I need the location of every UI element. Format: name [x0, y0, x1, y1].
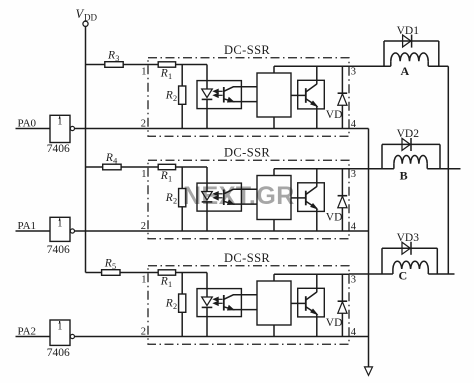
driver block (module 3)	[257, 281, 291, 325]
svg-text:R: R	[165, 192, 173, 204]
resistor R2 (module 3)	[179, 294, 186, 312]
phototransistor emitter to driver (module 1)	[224, 99, 257, 102]
wire internal top rail to pin 3 (module 1)	[274, 65, 349, 67]
inverter gate U-PA2 (7406)	[50, 320, 70, 345]
wire PA0 gate output to SSR pin 2	[75, 128, 149, 130]
wire emitter (module 2)	[316, 209, 318, 232]
svg-text:1: 1	[168, 72, 172, 81]
diode VD (module 1)	[341, 66, 343, 93]
driver block (module 1)	[257, 73, 291, 117]
resistor R3	[105, 62, 123, 68]
wire pin2 bottom rail to pin4 and ground rail (module 3)	[148, 336, 369, 338]
optocoupler box (module 1)	[197, 81, 241, 109]
wire ground return rail	[368, 129, 370, 368]
wire R2 to bottom (module 2)	[181, 207, 183, 231]
optocoupler LED (module 3)	[202, 297, 213, 306]
wire pin1 to R1 (module 1)	[148, 64, 158, 66]
wire R2 to bottom (module 1)	[181, 104, 183, 128]
DC-SSR module 2 dash-dot box	[148, 160, 349, 239]
resistor R2 (module 1)	[179, 86, 186, 104]
DC-SSR module 1 dash-dot box	[148, 58, 349, 137]
transistor Q2 (module 2)	[305, 191, 307, 206]
svg-text:VD2: VD2	[397, 128, 420, 140]
phototransistor collector to driver (module 3)	[224, 295, 257, 300]
wire PA1 gate output to SSR pin 2	[75, 230, 149, 232]
svg-text:R: R	[165, 298, 173, 310]
svg-text:R: R	[160, 68, 168, 80]
wire diode branch A	[384, 40, 439, 42]
wire LED cathode to pin2 line (module 2)	[206, 202, 208, 231]
wire LED cathode to pin2 line (module 1)	[206, 99, 208, 128]
svg-text:1: 1	[168, 280, 172, 289]
svg-text:DC-SSR: DC-SSR	[224, 146, 270, 160]
svg-text:3: 3	[351, 275, 356, 286]
wire phase C line from pin 3	[349, 273, 393, 275]
wire node to R2 (module 2)	[181, 167, 183, 189]
svg-text:VD3: VD3	[397, 232, 420, 244]
svg-text:R: R	[104, 257, 112, 269]
optocoupler LED (module 1)	[202, 89, 213, 98]
optocoupler LED (module 2)	[202, 192, 213, 201]
wire internal top rail to pin 3 (module 3)	[274, 273, 349, 275]
diode VD3	[402, 242, 410, 254]
wire B line right	[427, 168, 460, 170]
phototransistor bar (module 3)	[223, 295, 225, 311]
svg-text:DC-SSR: DC-SSR	[224, 43, 270, 57]
ground arrow	[365, 367, 373, 376]
inverter output bubble PA1	[70, 229, 74, 233]
DC-SSR module 3 dash-dot box	[148, 266, 349, 345]
wire collector (module 1)	[316, 66, 318, 84]
wire R4 to SSR pin 1	[121, 166, 148, 168]
wire PA2 input	[16, 336, 51, 338]
wire LED anode (module 1)	[206, 65, 208, 90]
svg-text:R: R	[160, 276, 168, 288]
inverter gate U-PA1 (7406)	[50, 217, 70, 241]
svg-text:1: 1	[141, 67, 146, 78]
svg-text:R: R	[107, 49, 115, 61]
diode VD1	[403, 35, 411, 47]
wire LED anode (module 3)	[206, 273, 208, 298]
svg-text:R: R	[165, 90, 173, 102]
svg-text:7406: 7406	[47, 347, 70, 359]
wire node to R2 (module 1)	[181, 65, 183, 87]
svg-text:R: R	[160, 170, 168, 182]
inductor B	[393, 164, 395, 169]
wire driver top (module 3)	[273, 274, 275, 281]
wire driver top (module 1)	[273, 66, 275, 73]
wire R2 to bottom (module 3)	[181, 312, 183, 336]
freewheel loop verticals B	[381, 144, 383, 168]
wire pin1 to R1 (module 3)	[148, 272, 158, 274]
svg-text:PA0: PA0	[18, 118, 37, 130]
svg-text:1: 1	[141, 275, 146, 286]
svg-text:1: 1	[141, 169, 146, 180]
inverter gate U-PA0 (7406)	[50, 115, 70, 142]
wire emitter (module 1)	[316, 106, 318, 129]
wire VDD rail	[85, 26, 87, 272]
svg-text:VD: VD	[326, 109, 343, 121]
svg-text:5: 5	[112, 262, 116, 271]
svg-text:PA1: PA1	[18, 220, 37, 232]
wire R1 to LED node (module 2)	[176, 166, 207, 168]
wire R1 to LED node (module 1)	[176, 64, 207, 66]
svg-text:PA2: PA2	[18, 326, 37, 338]
svg-text:7406: 7406	[47, 143, 70, 155]
wire driver bottom (module 3)	[273, 325, 275, 337]
svg-text:2: 2	[173, 94, 177, 103]
wire phase B line from pin 3	[349, 168, 394, 170]
driver block (module 2)	[257, 176, 291, 220]
phototransistor bar (module 1)	[223, 87, 225, 103]
resistor R1 (module 1)	[158, 62, 175, 67]
diode VD (module 3)	[341, 274, 343, 301]
light arrows (module 2)	[216, 193, 223, 195]
wire driver bottom (module 2)	[273, 220, 275, 232]
inverter output bubble PA0	[70, 126, 74, 130]
inductor C	[392, 269, 394, 274]
svg-text:1: 1	[168, 175, 172, 184]
wire R5 to SSR pin 1	[120, 272, 148, 274]
svg-text:VD: VD	[326, 212, 343, 224]
svg-text:3: 3	[115, 54, 119, 63]
wire pin2 bottom rail to pin4 and ground rail (module 2)	[148, 230, 369, 232]
wire R1 to LED node (module 3)	[176, 272, 207, 274]
wire VDD rail to R5	[86, 272, 102, 274]
diode VD2	[402, 138, 410, 150]
svg-text:2: 2	[141, 327, 146, 338]
svg-text:2: 2	[173, 197, 177, 206]
svg-text:R: R	[105, 152, 113, 164]
wire LED cathode to pin2 line (module 3)	[206, 307, 208, 336]
optocoupler box (module 2)	[197, 183, 241, 211]
transistor Q1 (module 1)	[305, 88, 307, 103]
wire driver to transistor base (module 1)	[291, 94, 306, 96]
svg-text:3: 3	[351, 169, 356, 180]
transistor box (module 3)	[298, 288, 325, 317]
resistor R5	[102, 270, 120, 276]
svg-text:VD: VD	[326, 317, 343, 329]
freewheel loop verticals A	[383, 41, 385, 66]
wire pin1 to R1 (module 2)	[148, 166, 158, 168]
svg-text:A: A	[401, 64, 410, 78]
transistor box (module 1)	[298, 80, 325, 109]
wire LED anode (module 2)	[206, 167, 208, 192]
svg-text:NEXT.GR: NEXT.GR	[183, 182, 295, 210]
svg-text:2: 2	[141, 119, 146, 130]
wire collector (module 2)	[316, 169, 318, 187]
phototransistor collector to driver (module 1)	[224, 87, 257, 92]
wire PA2 gate output to SSR pin 2	[75, 336, 149, 338]
wire VDD rail to R4	[86, 166, 103, 168]
svg-text:7406: 7406	[47, 244, 70, 256]
wire diode branch C	[382, 247, 437, 249]
svg-text:DC-SSR: DC-SSR	[224, 251, 270, 265]
optocoupler box (module 3)	[197, 289, 241, 317]
power VDD terminal	[83, 21, 88, 26]
inverter output bubble PA2	[70, 334, 74, 338]
diode VD (module 2)	[341, 169, 343, 196]
freewheel loop verticals C	[381, 248, 383, 274]
phototransistor bar (module 2)	[223, 190, 225, 206]
phototransistor emitter to driver (module 3)	[224, 307, 257, 310]
resistor R1 (module 2)	[158, 164, 175, 169]
svg-text:C: C	[399, 269, 408, 283]
wire emitter (module 3)	[316, 314, 318, 337]
inductor A	[390, 61, 392, 66]
phototransistor emitter to driver (module 2)	[224, 201, 257, 204]
transistor box (module 2)	[298, 183, 325, 212]
wire driver top (module 2)	[273, 169, 275, 176]
resistor R1 (module 3)	[158, 270, 175, 275]
wire pin2 bottom rail to pin4 and ground rail (module 1)	[148, 128, 369, 130]
wire driver to transistor base (module 3)	[291, 302, 306, 304]
wire A line right	[428, 65, 448, 67]
svg-text:VD1: VD1	[397, 25, 420, 37]
wire internal top rail to pin 3 (module 2)	[274, 168, 349, 170]
svg-text:2: 2	[173, 302, 177, 311]
wire collector (module 3)	[316, 274, 318, 292]
svg-text:B: B	[400, 169, 408, 183]
svg-text:4: 4	[113, 156, 117, 165]
svg-text:3: 3	[351, 67, 356, 78]
wire diode branch B	[382, 143, 440, 145]
svg-text:2: 2	[141, 221, 146, 232]
resistor R4	[103, 164, 121, 170]
wire common supply rail (right)	[447, 66, 449, 274]
wire phase A line from pin 3	[349, 65, 391, 67]
wire R3 to SSR pin 1	[123, 64, 148, 66]
resistor R2 (module 2)	[179, 189, 186, 207]
wire C line right	[428, 273, 454, 275]
wire VDD rail to R3	[86, 64, 105, 66]
wire PA1 input	[16, 230, 51, 232]
wire PA0 input	[16, 128, 51, 130]
wire driver bottom (module 1)	[273, 117, 275, 129]
transistor Q3 (module 3)	[305, 296, 307, 311]
phototransistor collector to driver (module 2)	[224, 189, 257, 194]
wire driver to transistor base (module 2)	[291, 197, 306, 199]
wire node to R2 (module 3)	[181, 273, 183, 295]
light arrows (module 1)	[216, 90, 223, 92]
light arrows (module 3)	[216, 298, 223, 300]
